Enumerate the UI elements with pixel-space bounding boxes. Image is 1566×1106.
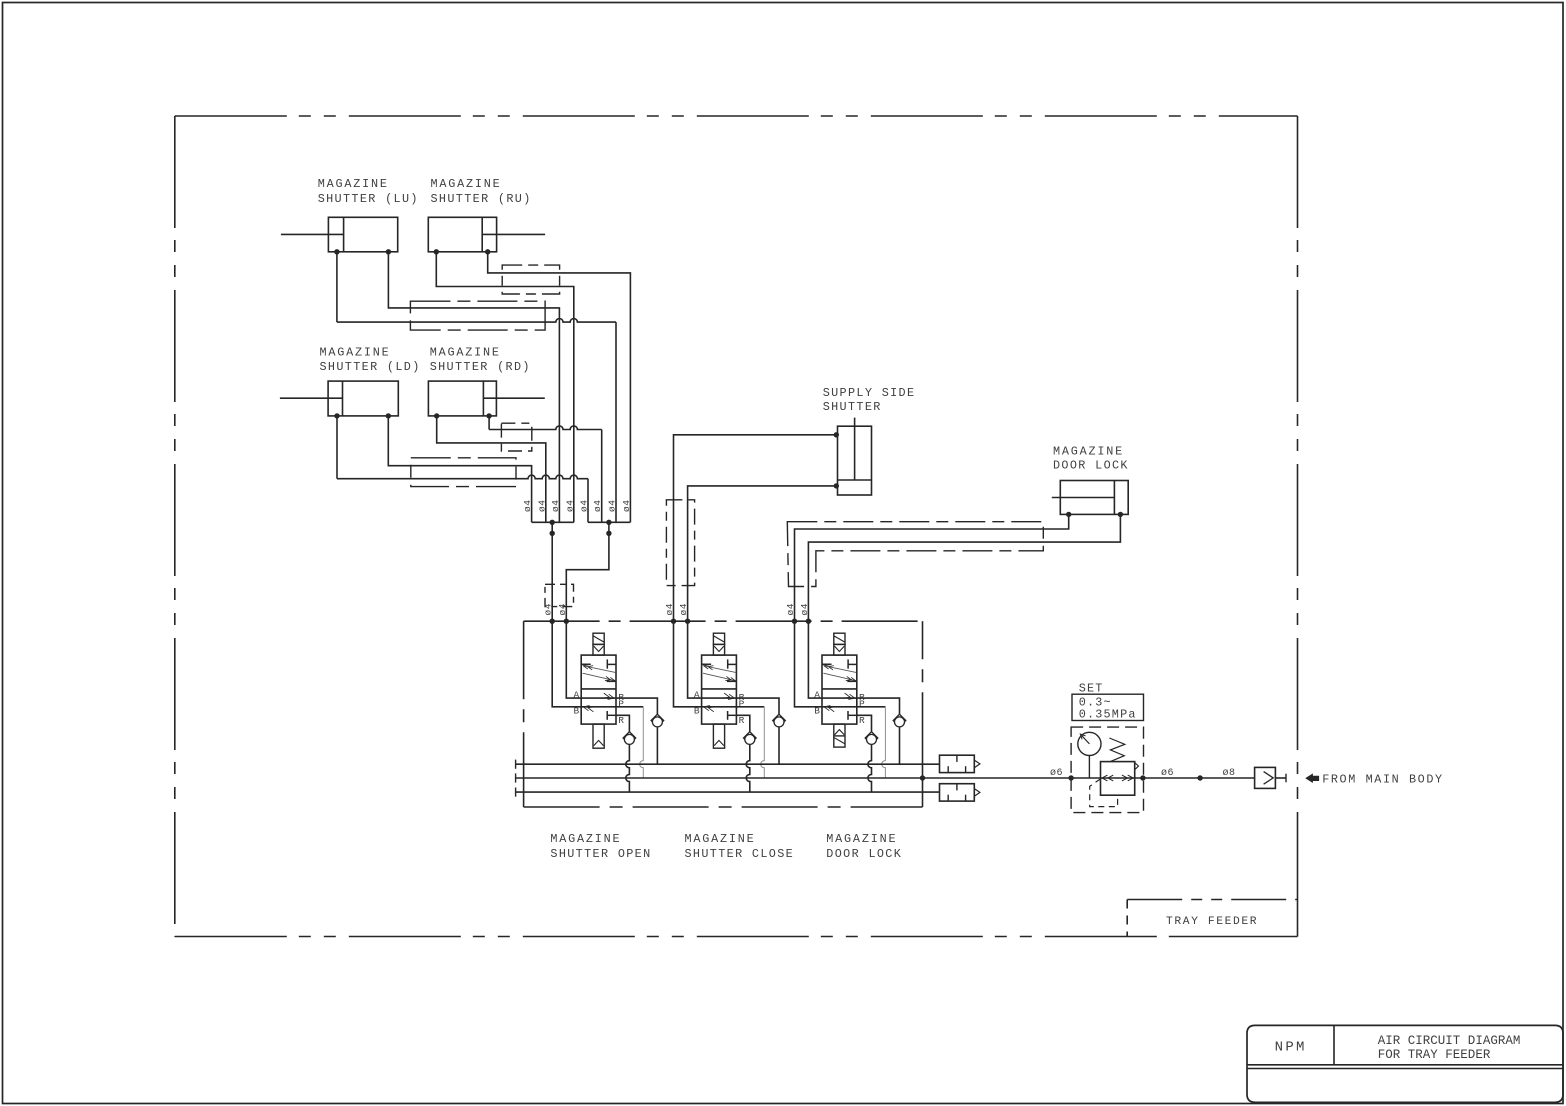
main line junction dots and size labels [1068,775,1073,780]
svg-text:SHUTTER CLOSE: SHUTTER CLOSE [685,847,795,861]
junction pressure tap at enclosure right edge [922,726,924,807]
svg-text:MAGAZINE: MAGAZINE [320,345,391,359]
junction dots left manifold [550,520,555,525]
svg-text:ø4: ø4 [536,500,547,512]
inlet check valve [1255,767,1286,788]
svg-text:MAGAZINE: MAGAZINE [685,832,756,846]
pressure rail (main supply line) [516,777,1255,779]
svg-text:ø6: ø6 [1161,768,1174,779]
svg-text:SHUTTER (LU): SHUTTER (LU) [318,192,419,206]
wire valve3 A-R line through body to R drop [822,697,857,699]
svg-text:MAGAZINE: MAGAZINE [318,177,389,191]
wire RU right port to line 8 [488,252,631,523]
svg-text:P: P [618,698,624,709]
wire valve1 A-R line through body to R drop [581,697,616,699]
svg-text:ø4: ø4 [678,603,689,615]
svg-text:P: P [739,698,745,709]
svg-text:DOOR LOCK: DOOR LOCK [826,847,902,861]
svg-text:SHUTTER (RU): SHUTTER (RU) [431,192,532,206]
valve V1 MAGAZINE SHUTTER OPEN (5-port solenoid) [573,633,624,748]
svg-text:ø4: ø4 [664,603,675,615]
junction dots on enclosure top edge [550,619,555,624]
svg-text:AIR CIRCUIT DIAGRAM: AIR CIRCUIT DIAGRAM [1378,1034,1521,1048]
wire valve2 A inlet [688,621,702,698]
regulator enclosure (dashed) [1071,727,1143,813]
wire valve2 R bottom to exhaust rail 3 [736,715,749,731]
regulator pilot line (dashed) [1090,779,1118,807]
wire valve1 R bottom to exhaust rail 3 [616,715,629,731]
bulkhead box (RD pair) [501,423,531,451]
wire RD left port to line 2 [437,416,546,522]
wire valve2 A-R line through body to R drop [702,697,737,699]
svg-text:ø4: ø4 [785,603,796,615]
bulkhead box (LD pair) [411,458,516,487]
cylinder MAGAZINE SHUTTER (RU) [428,177,545,254]
tray feeder boundary (dashed enclosure) [175,116,1298,937]
exhaust silencer on valve2 R top drop [773,714,786,727]
svg-text:MAGAZINE: MAGAZINE [1053,444,1124,458]
cylinder MAGAZINE DOOR LOCK [1052,444,1129,517]
wire valve3 A inlet [808,621,822,698]
svg-text:SHUTTER: SHUTTER [823,400,882,414]
exhaust silencer on valve3 R top drop [893,714,906,727]
svg-text:SUPPLY SIDE: SUPPLY SIDE [823,386,916,400]
svg-text:SHUTTER OPEN: SHUTTER OPEN [550,847,651,861]
wire valve2 P line [702,706,765,708]
bulkhead box (valve1 pair) [545,584,574,606]
wire RD right port to line 6 (hops lines 3,4) [488,416,490,430]
svg-text:ø4: ø4 [557,603,568,615]
svg-text:MAGAZINE: MAGAZINE [550,832,621,846]
exhaust rail 3 [516,791,940,793]
svg-text:R: R [859,715,865,726]
svg-text:ø8: ø8 [1223,768,1236,779]
svg-text:ø4: ø4 [550,500,561,512]
FROM MAIN BODY arrow [1306,774,1318,782]
wire valve1 R top drop to exhaust rail 1 [656,727,658,764]
cylinder MAGAZINE SHUTTER (LD) [280,345,421,418]
wire supply shutter top port to valve2 B [674,435,837,621]
wire right manifold down with jog to valve box [566,522,609,621]
wire door lock right port to valve3 A [808,514,1120,621]
svg-text:P: P [859,698,865,709]
svg-text:MAGAZINE: MAGAZINE [826,832,897,846]
svg-text:FOR TRAY FEEDER: FOR TRAY FEEDER [1378,1048,1491,1062]
svg-text:ø4: ø4 [579,500,590,512]
wire valve3 R bottom to exhaust rail 3 [857,715,872,731]
valve V3 MAGAZINE DOOR LOCK (5-port solenoid, double) [814,633,865,747]
exhaust rail 1 [516,763,940,765]
wire valve1 B inlet [552,621,581,707]
svg-text:MAGAZINE: MAGAZINE [431,177,502,191]
svg-text:ø4: ø4 [564,500,575,512]
tube size labels (ø4 x8) [522,500,632,512]
wire LD right port to line 1 [388,416,531,522]
svg-text:R: R [618,715,624,726]
junction dots right manifold [606,520,611,525]
set-point box 0.3~0.35MPa [1072,694,1144,721]
exhaust silencer on valve1 R top drop [651,714,664,727]
svg-text:ø4: ø4 [621,500,632,512]
svg-text:NPM: NPM [1275,1040,1307,1056]
manifold bar left (lines 1-4) [532,521,574,523]
wire LD left port to line 5 (hops lines 1-4) [336,416,338,479]
exhaust outlet fitting (rail 3) [940,784,975,801]
wire valve3 R top drop to exhaust rail 1 [899,727,901,764]
svg-text:SET: SET [1079,681,1104,695]
svg-text:TRAY FEEDER: TRAY FEEDER [1166,916,1258,928]
title block [1247,1025,1563,1102]
pressure gauge [1078,732,1101,778]
svg-text:ø4: ø4 [592,500,603,512]
exhaust outlet fitting (rail 1) [940,755,975,772]
svg-text:ø4: ø4 [522,500,533,512]
svg-text:ø4: ø4 [543,603,554,615]
cylinder MAGAZINE SHUTTER (LU) [281,177,419,254]
svg-text:MAGAZINE: MAGAZINE [430,345,501,359]
svg-text:SHUTTER (RD): SHUTTER (RD) [430,360,531,374]
regulator body [1101,762,1139,796]
svg-text:ø4: ø4 [607,500,618,512]
manifold bar right (lines 5-8) [588,521,630,523]
valve V2 MAGAZINE SHUTTER CLOSE (5-port solenoid) [694,633,745,748]
wire left manifold down to valve box [551,522,553,621]
wire valve3 P line [822,706,885,708]
valve unit enclosure (dashed) [524,621,923,807]
bulkhead box (valve2 pair) [666,500,694,586]
svg-text:ø6: ø6 [1050,768,1063,779]
svg-text:ø4: ø4 [799,603,810,615]
wire RU left port to line 4 [436,252,574,523]
svg-text:SHUTTER (LD): SHUTTER (LD) [320,360,421,374]
wire LU right port to line 3 [388,252,559,523]
cylinder SUPPLY SIDE SHUTTER [823,386,916,495]
wire LU left port to line 7 (hops lines 3,4) [336,252,338,322]
wire supply shutter bottom port to valve2 A [688,486,837,621]
svg-text:DOOR LOCK: DOOR LOCK [1053,459,1129,473]
cylinder MAGAZINE SHUTTER (RD) [428,345,544,418]
wire door lock left port to valve3 B [795,514,1069,621]
bulkhead box wide (door lock run) [787,522,1043,587]
bulkhead box (LU pair) [410,301,545,330]
wire valve3 B inlet [795,621,823,707]
regulator spring [1109,738,1124,761]
svg-text:FROM MAIN BODY: FROM MAIN BODY [1322,773,1444,787]
svg-text:R: R [739,715,745,726]
wire valve1 A inlet [566,621,581,698]
wire valve2 B inlet [674,621,702,707]
wire valve1 P line [581,706,643,708]
svg-text:0.35MPa: 0.35MPa [1079,707,1137,721]
wire valve2 R top drop to exhaust rail 1 [778,727,780,764]
TRAY FEEDER label box [1127,900,1297,937]
bulkhead box (RU pair) [502,265,559,294]
